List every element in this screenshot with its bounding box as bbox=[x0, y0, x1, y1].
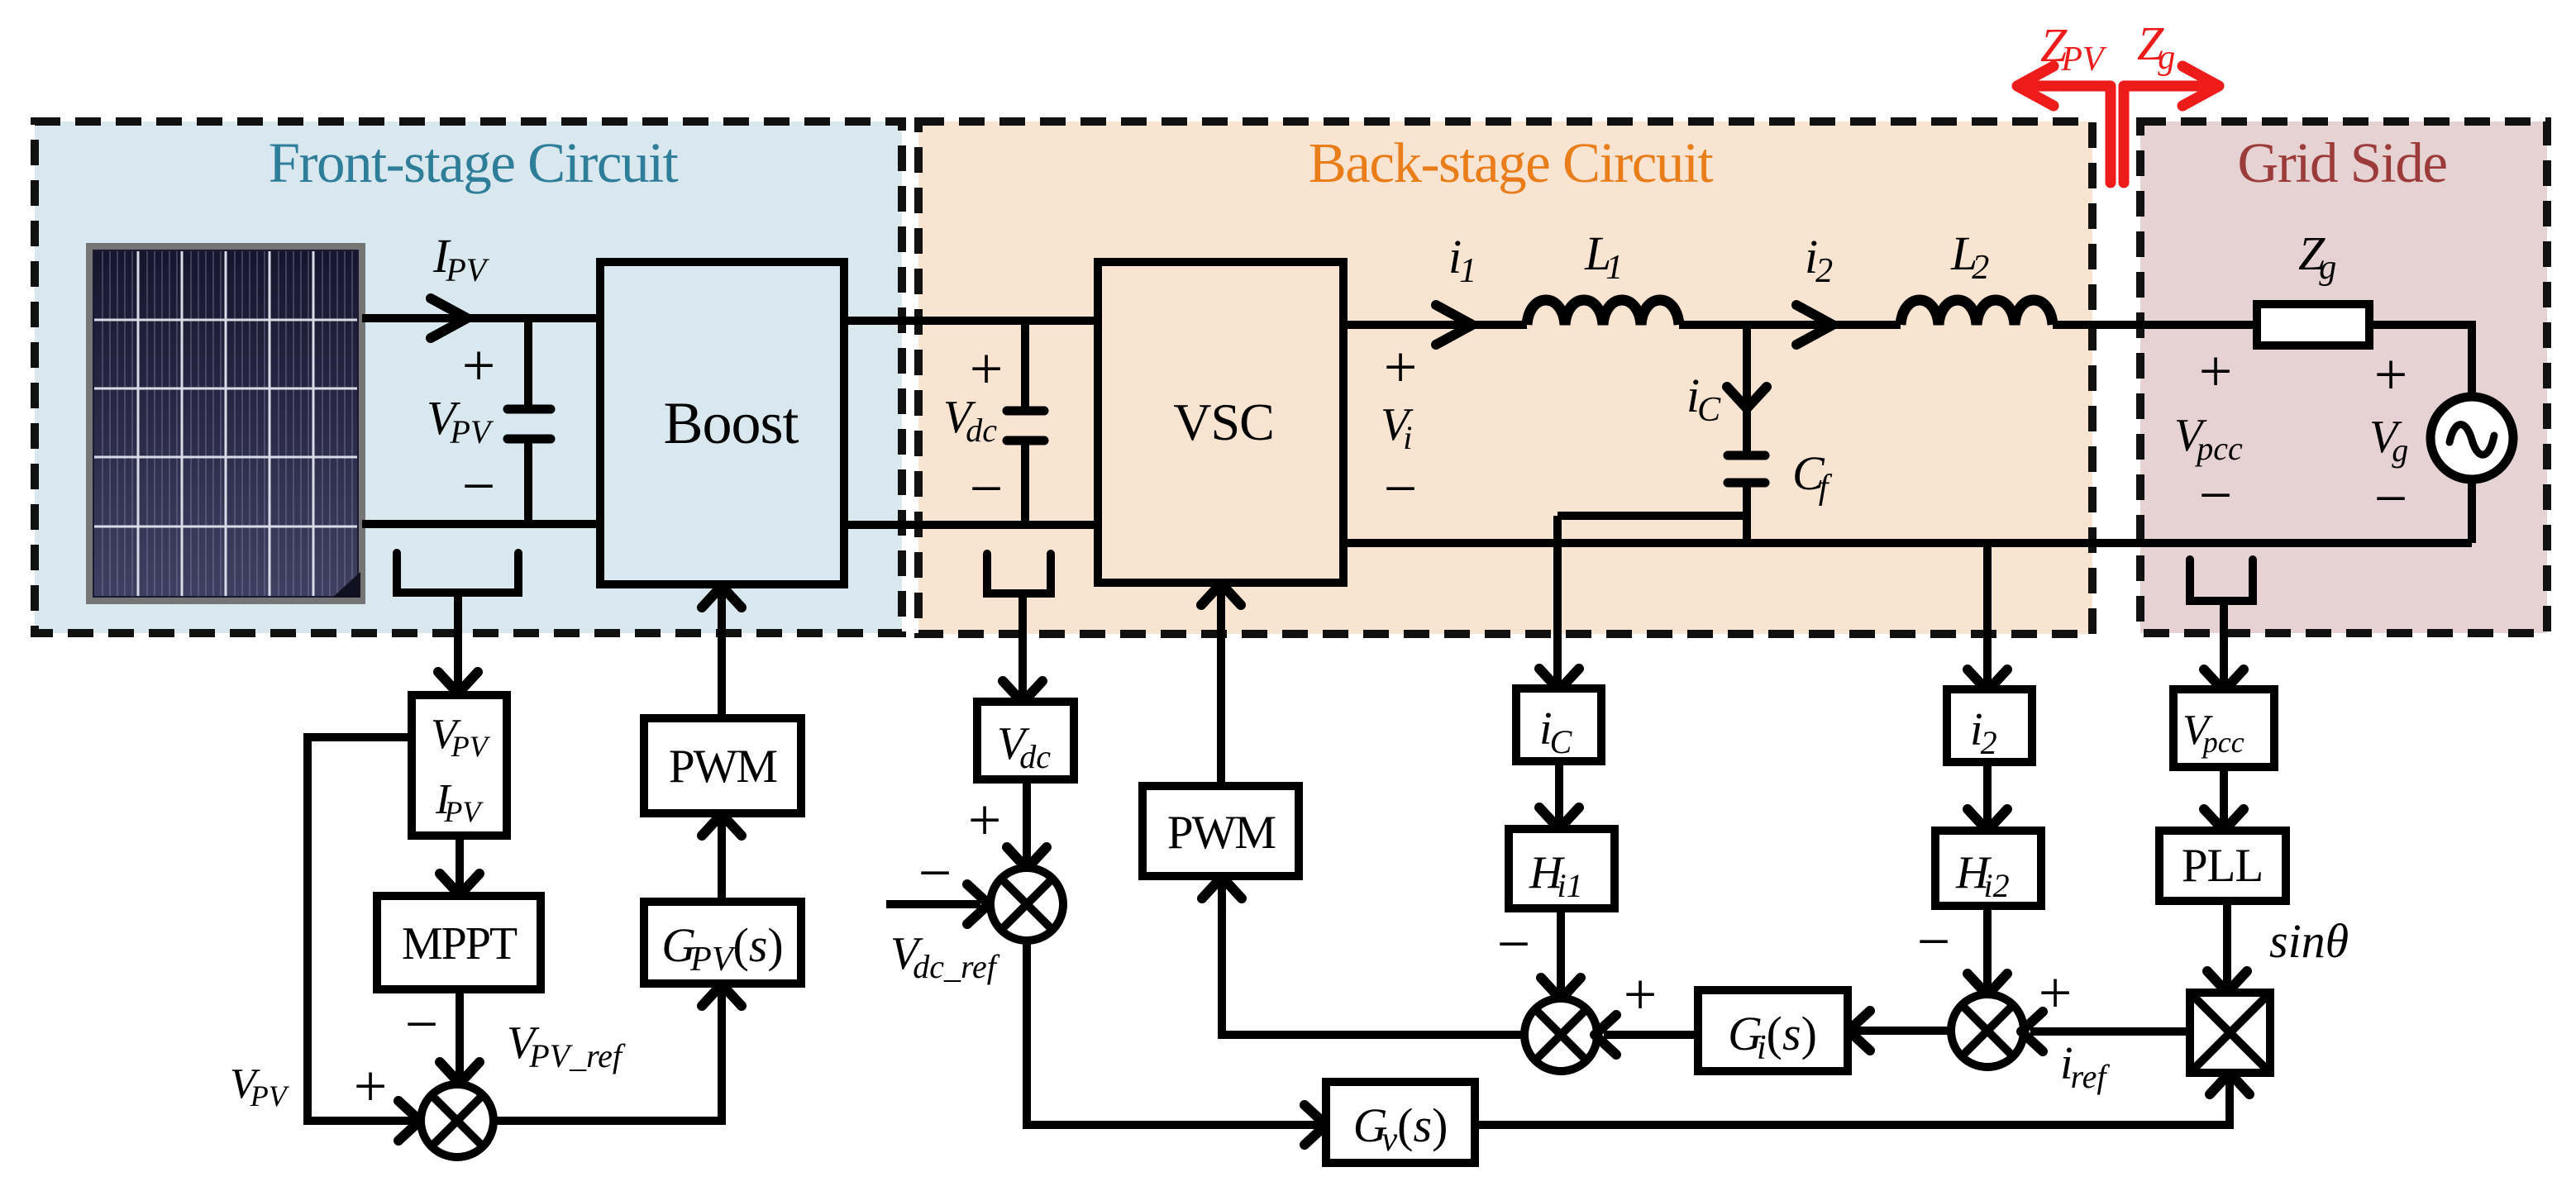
arrow into MPPT bbox=[440, 874, 479, 895]
arrow into PWM1 bottom bbox=[702, 814, 742, 836]
arrow into G_i right bbox=[1849, 1011, 1870, 1050]
summing junction S3 bbox=[1524, 998, 1597, 1071]
block VPV IPV bbox=[412, 695, 507, 836]
block V_dc meas bbox=[977, 702, 1074, 779]
arrow into G_PV bottom bbox=[702, 984, 742, 1006]
wire PWM2 to VSC bbox=[1217, 588, 1225, 786]
arrow into VPV/IPV block bbox=[438, 672, 478, 693]
svg-text:PLL: PLL bbox=[2182, 840, 2263, 892]
arrow into Boost bottom bbox=[702, 586, 742, 607]
wire i2 block to H_i2 bbox=[1983, 762, 1992, 825]
label + V_dc - bbox=[943, 336, 1003, 522]
wire i_C pickup down bbox=[1553, 516, 1562, 684]
arrow into S2 left bbox=[967, 884, 989, 924]
wire H_i2 to S4 bbox=[1983, 906, 1992, 989]
svg-text:+: + bbox=[462, 332, 496, 398]
svg-text:+: + bbox=[1624, 961, 1658, 1027]
arrow into H_i2 bbox=[1968, 809, 2007, 831]
block PWM1 bbox=[644, 718, 801, 813]
inductor L1 bbox=[1527, 300, 1679, 325]
arrow into multiplier bottom bbox=[2210, 1073, 2249, 1094]
source V_g bbox=[2431, 397, 2513, 479]
block Z_g resistor bbox=[2257, 304, 2369, 345]
wire PV bottom to Boost bbox=[362, 520, 600, 528]
label + V_PV - bbox=[427, 332, 495, 519]
wire MPPT to sum S1 bbox=[456, 989, 464, 1078]
wire C_f tap jog bbox=[1558, 512, 1747, 520]
svg-text:−: − bbox=[405, 991, 439, 1057]
svg-text:−: − bbox=[1497, 911, 1531, 977]
svg-text:+: + bbox=[2374, 341, 2408, 407]
block PLL bbox=[2159, 831, 2286, 901]
svg-text:PWM: PWM bbox=[1167, 807, 1276, 859]
block i2 meas bbox=[1947, 689, 2032, 762]
block PWM2 bbox=[1143, 786, 1299, 876]
arrow into iC block bbox=[1539, 669, 1579, 690]
arrow into PWM2 bottom bbox=[1202, 877, 1242, 898]
bracket V_dc sense bbox=[987, 554, 1051, 697]
red impedance marker bbox=[2017, 66, 2219, 183]
arrow into S3 right bbox=[1595, 1015, 1616, 1055]
svg-text:−: − bbox=[1384, 455, 1418, 522]
svg-text:+: + bbox=[968, 787, 1002, 853]
svg-text:−: − bbox=[462, 453, 496, 519]
wire iC block to H_i1 bbox=[1555, 761, 1563, 823]
block G_v(s) bbox=[1326, 1082, 1475, 1163]
arrow into S1 top bbox=[440, 1062, 479, 1084]
grid-side region box bbox=[2140, 121, 2547, 633]
svg-text:Boost: Boost bbox=[663, 390, 799, 456]
wire V_pcc pickup bbox=[2220, 601, 2228, 684]
svg-text:Vi: Vi bbox=[1381, 399, 1414, 456]
capacitor C_dc bbox=[1007, 321, 1044, 525]
block G_PV(s) bbox=[644, 902, 801, 984]
wire S3 to PWM2 bbox=[1222, 883, 1524, 1035]
summing junction S1 bbox=[421, 1084, 494, 1157]
label + V_g - bbox=[2369, 341, 2408, 531]
svg-text:Back-stage Circuit: Back-stage Circuit bbox=[1309, 131, 1714, 194]
svg-text:+: + bbox=[354, 1053, 388, 1119]
svg-text:VSC: VSC bbox=[1173, 393, 1274, 451]
svg-text:−: − bbox=[970, 455, 1004, 522]
label + V_i - bbox=[1381, 334, 1417, 522]
svg-text:−: − bbox=[2199, 462, 2233, 528]
arrow i1 bbox=[1436, 305, 1472, 345]
wire Boost to VSC top bbox=[844, 317, 1098, 325]
arrow into S1 left bbox=[398, 1101, 420, 1141]
arrow i2 bbox=[1796, 305, 1833, 345]
arrow into S4 right bbox=[2021, 1012, 2043, 1051]
inductor L2 bbox=[1901, 300, 2053, 325]
svg-text:+: + bbox=[970, 336, 1004, 402]
block VSC bbox=[1098, 262, 1343, 583]
arrow into H_i1 bbox=[1539, 807, 1579, 829]
svg-text:−: − bbox=[2374, 465, 2408, 531]
svg-text:Gv(s): Gv(s) bbox=[1353, 1098, 1448, 1159]
arrow into multiplier top bbox=[2207, 971, 2247, 993]
block iC meas bbox=[1516, 688, 1601, 761]
node junction at L1-L2 bbox=[1743, 325, 1751, 455]
wire S4 to G_i bbox=[1856, 1027, 1951, 1035]
block H_i1 bbox=[1509, 829, 1615, 908]
summing junction S2 bbox=[990, 868, 1063, 941]
arrow into S2 top bbox=[1007, 847, 1047, 869]
wire L1 to L2 bbox=[1679, 321, 1901, 329]
wire VSC bottom rail bbox=[1344, 539, 2472, 547]
svg-text:−: − bbox=[918, 840, 952, 906]
wire VPV block to MPPT bbox=[456, 836, 464, 889]
wire H_i1 to S3 bbox=[1557, 908, 1565, 993]
back-stage region box bbox=[918, 121, 2092, 634]
block MPPT bbox=[377, 896, 541, 989]
arrow i_C bbox=[1727, 387, 1767, 408]
block V_pcc meas bbox=[2173, 689, 2274, 767]
bracket V_pcc sense bbox=[2190, 560, 2253, 601]
wire Vg bottom bbox=[2468, 479, 2476, 543]
block G_i(s) bbox=[1698, 990, 1848, 1071]
wire Boost to VSC bottom bbox=[844, 521, 1098, 529]
wire G_v to multiplier bbox=[1475, 1079, 2230, 1125]
wire VSC to L1 bbox=[1344, 321, 1527, 329]
wire i2 pickup down bbox=[1983, 543, 1992, 684]
wire Zg to Vg bbox=[2369, 325, 2472, 397]
wire G_PV to PWM1 bbox=[718, 820, 726, 902]
wire S1 to G_PV bbox=[494, 990, 722, 1121]
svg-text:MPPT: MPPT bbox=[402, 918, 518, 969]
wire L2 to Zg bbox=[2053, 321, 2257, 329]
label + V_pcc - bbox=[2174, 338, 2243, 528]
svg-text:sinθ: sinθ bbox=[2269, 914, 2349, 968]
arrow into G_v left bbox=[1305, 1105, 1326, 1145]
svg-text:+: + bbox=[1384, 334, 1418, 400]
svg-text:PWM: PWM bbox=[669, 741, 778, 793]
wire PLL to multiplier bbox=[2223, 901, 2231, 987]
svg-text:Front-stage Circuit: Front-stage Circuit bbox=[269, 131, 679, 194]
wire V_dc block to S2 bbox=[1023, 779, 1031, 863]
block H_i2 bbox=[1935, 831, 2041, 906]
svg-text:Gi(s): Gi(s) bbox=[1728, 1007, 1817, 1067]
wire S2 to G_v bbox=[1027, 941, 1320, 1125]
summing junction S4 bbox=[1951, 994, 2024, 1067]
arrow into i2 block bbox=[1968, 669, 2007, 691]
wire feedback V_PV left bbox=[308, 737, 413, 1121]
capacitor C_PV bbox=[508, 318, 551, 524]
block Boost bbox=[600, 262, 844, 584]
multiplier box bbox=[2190, 993, 2270, 1073]
capacitor C_f bbox=[1728, 455, 1765, 543]
wire G_i to S3 bbox=[1604, 1031, 1698, 1039]
wire V_pcc block to PLL bbox=[2220, 767, 2228, 825]
PV panel bbox=[89, 246, 362, 601]
arrow I_PV bbox=[431, 298, 467, 338]
arrow into PLL bbox=[2204, 809, 2244, 831]
wire V_dc_ref input bbox=[886, 900, 980, 908]
svg-text:−: − bbox=[1917, 908, 1951, 974]
arrow into V_dc block bbox=[1003, 681, 1042, 703]
arrow into VSC bottom bbox=[1201, 584, 1241, 605]
wire mult to S4 bbox=[2030, 1027, 2190, 1036]
svg-text:Grid Side: Grid Side bbox=[2238, 131, 2447, 194]
arrow into S4 top bbox=[1968, 974, 2007, 995]
front-stage region box bbox=[35, 121, 902, 633]
arrow into V_pcc block bbox=[2204, 669, 2244, 691]
wire PWM1 to Boost bbox=[718, 588, 726, 718]
bracket V_PV sense bbox=[397, 553, 518, 688]
arrow into S3 top bbox=[1541, 978, 1581, 999]
wire PV top to Boost bbox=[362, 314, 600, 322]
svg-text:+: + bbox=[2199, 338, 2233, 404]
